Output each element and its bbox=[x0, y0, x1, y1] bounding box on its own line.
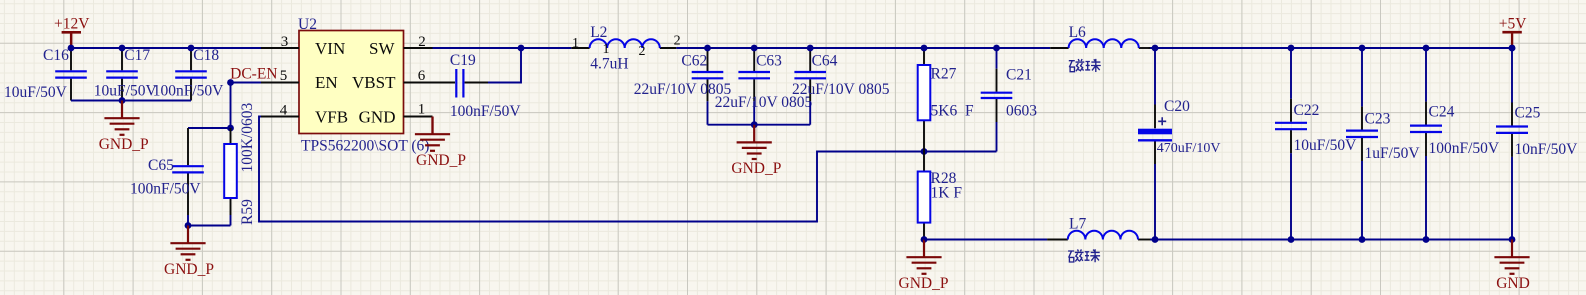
svg-text:C62: C62 bbox=[681, 52, 707, 69]
svg-text:3: 3 bbox=[281, 34, 289, 50]
wire C19 to SW rail bbox=[488, 48, 521, 83]
junction DC-EN bbox=[227, 79, 234, 86]
svg-text:GND_P: GND_P bbox=[731, 160, 781, 177]
resistor R28 bbox=[923, 152, 925, 172]
svg-text:C65: C65 bbox=[148, 157, 174, 174]
svg-text:U2: U2 bbox=[298, 16, 317, 33]
svg-text:2: 2 bbox=[639, 44, 646, 59]
svg-text:C21: C21 bbox=[1006, 66, 1032, 83]
capacitor C21 bbox=[996, 48, 998, 69]
svg-text:1: 1 bbox=[572, 36, 579, 51]
svg-text:100nF/50V: 100nF/50V bbox=[450, 103, 521, 120]
junction C63 top bbox=[751, 45, 758, 52]
svg-text:R59: R59 bbox=[239, 199, 256, 225]
wire pin1 to ground bbox=[431, 117, 433, 135]
pin 6 VBST bbox=[404, 82, 433, 84]
svg-text:2: 2 bbox=[674, 34, 681, 49]
svg-text:VFB: VFB bbox=[315, 108, 348, 127]
pin 1 GND bbox=[404, 116, 433, 118]
svg-text:22uF/10V 0805: 22uF/10V 0805 bbox=[792, 81, 890, 98]
junction C64 top bbox=[807, 45, 814, 52]
capacitor C23 bbox=[1361, 48, 1363, 107]
svg-text:L6: L6 bbox=[1069, 24, 1086, 41]
svg-text:C63: C63 bbox=[756, 52, 782, 69]
junction L7/C20 bottom bbox=[1152, 236, 1159, 243]
svg-text:SW: SW bbox=[369, 39, 395, 58]
capacitor C17 bbox=[121, 48, 123, 70]
junction +5V bbox=[1509, 45, 1516, 52]
wire +12V stem bbox=[70, 33, 72, 48]
resistor R27 bbox=[923, 48, 925, 65]
svg-text:1: 1 bbox=[418, 102, 426, 118]
svg-text:L7: L7 bbox=[1069, 215, 1086, 232]
ground GND_P R28 bbox=[906, 240, 941, 274]
svg-text:6: 6 bbox=[418, 68, 426, 84]
wire output caps bottom bbox=[708, 124, 811, 126]
wire C65/R59 bottom bbox=[188, 225, 231, 227]
resistor R59 bbox=[230, 128, 232, 144]
ground GND_P output caps bbox=[737, 125, 772, 159]
svg-text:L2: L2 bbox=[590, 24, 607, 41]
wire R28 gnd to L7 bbox=[924, 239, 1047, 241]
svg-text:1K F: 1K F bbox=[931, 185, 963, 202]
junction C19/SW bbox=[518, 45, 525, 52]
svg-text:C19: C19 bbox=[450, 52, 476, 69]
svg-text:GND_P: GND_P bbox=[99, 136, 149, 153]
capacitor C63 bbox=[753, 48, 755, 71]
svg-text:GND_P: GND_P bbox=[164, 261, 214, 278]
capacitor C19 bbox=[433, 82, 456, 84]
capacitor C18 bbox=[190, 48, 192, 70]
wire input caps bottom bbox=[71, 100, 191, 102]
svg-text:R27: R27 bbox=[931, 66, 957, 83]
wire L6 to +5V rail bbox=[1149, 47, 1513, 49]
capacitor C62 bbox=[707, 48, 709, 71]
pin 2 SW bbox=[404, 47, 433, 49]
svg-text:10uF/50V: 10uF/50V bbox=[94, 83, 158, 100]
svg-text:0603: 0603 bbox=[1006, 103, 1037, 120]
svg-text:C24: C24 bbox=[1429, 103, 1455, 120]
capacitor C24 bbox=[1425, 48, 1427, 102]
svg-text:5K6 F: 5K6 F bbox=[931, 103, 974, 120]
svg-text:10uF/50V: 10uF/50V bbox=[4, 84, 68, 101]
value 磁珠 L6 bbox=[1069, 59, 1101, 72]
capacitor C65 bbox=[187, 128, 189, 165]
pin 3 VIN bbox=[261, 47, 299, 49]
svg-text:GND: GND bbox=[359, 108, 396, 127]
svg-text:100nF/50V: 100nF/50V bbox=[130, 181, 201, 198]
pin 5 EN bbox=[261, 82, 299, 84]
wire L7 to GND corner bbox=[1150, 239, 1512, 241]
junction C62 top bbox=[704, 45, 711, 52]
junction C17 top bbox=[119, 45, 126, 52]
svg-text:EN: EN bbox=[315, 73, 338, 92]
ground GND_P C65/R59 bbox=[170, 226, 205, 260]
pin 4 VFB bbox=[261, 116, 299, 118]
junction C21 top bbox=[993, 45, 1000, 52]
svg-text:10uF/50V: 10uF/50V bbox=[1294, 137, 1358, 154]
capacitor C20 470uF bbox=[1154, 48, 1156, 105]
inductor L2 4.7uH bbox=[571, 47, 589, 49]
junction FB divider bbox=[921, 148, 928, 155]
svg-text:C22: C22 bbox=[1294, 102, 1320, 119]
capacitor C25 bbox=[1511, 48, 1513, 103]
wire R59/C65 top bbox=[188, 127, 231, 129]
svg-text:4.7uH: 4.7uH bbox=[590, 55, 628, 72]
wire DC-EN to pin5 bbox=[231, 82, 262, 84]
svg-text:4: 4 bbox=[280, 103, 288, 119]
power +12V bbox=[62, 31, 81, 34]
junction C65 bottom bbox=[185, 222, 192, 229]
svg-text:GND_P: GND_P bbox=[899, 275, 949, 292]
wire L2 to L6 bbox=[676, 47, 1050, 49]
junction C17 bottom bbox=[119, 97, 126, 104]
wire VFB feedback bbox=[259, 117, 997, 222]
svg-text:GND_P: GND_P bbox=[416, 152, 466, 169]
capacitor C64 bbox=[809, 48, 811, 71]
svg-text:100nF/50V: 100nF/50V bbox=[1429, 140, 1500, 157]
svg-text:470uF/10V: 470uF/10V bbox=[1157, 141, 1221, 156]
capacitor C16 bbox=[70, 48, 72, 70]
svg-text:5: 5 bbox=[280, 68, 288, 84]
junction L6/C20 top bbox=[1152, 45, 1159, 52]
svg-text:TPS562200\SOT (6): TPS562200\SOT (6) bbox=[301, 137, 429, 154]
wire +12V rail to U2 pin3 bbox=[71, 47, 261, 49]
svg-text:+5V: +5V bbox=[1499, 15, 1527, 32]
junction R28 bottom bbox=[921, 236, 928, 243]
op-amp U2 TPS562200 body bbox=[299, 31, 404, 134]
ground GND_P U2 bbox=[415, 117, 450, 151]
svg-text:VIN: VIN bbox=[315, 39, 345, 58]
power +5V bbox=[1502, 31, 1521, 34]
svg-text:C16: C16 bbox=[43, 47, 69, 64]
svg-text:DC-EN: DC-EN bbox=[230, 66, 277, 83]
svg-text:+12V: +12V bbox=[54, 16, 90, 33]
svg-text:C23: C23 bbox=[1365, 110, 1391, 127]
inductor L7 bead bbox=[1047, 239, 1068, 241]
value 磁珠 L7 bbox=[1068, 249, 1100, 262]
wire U2 SW to L2 bbox=[433, 47, 572, 49]
svg-text:VBST: VBST bbox=[352, 73, 396, 92]
svg-text:100nF/50V: 100nF/50V bbox=[153, 83, 224, 100]
junction R59 top bbox=[227, 125, 234, 132]
junction GND corner bbox=[1509, 236, 1516, 243]
svg-text:C18: C18 bbox=[193, 47, 219, 64]
svg-text:GND: GND bbox=[1496, 275, 1530, 292]
inductor L6 bead bbox=[1050, 47, 1068, 49]
svg-text:10nF/50V: 10nF/50V bbox=[1515, 141, 1579, 158]
junction C63 bottom bbox=[751, 121, 758, 128]
junction R27 top bbox=[921, 45, 928, 52]
svg-text:C25: C25 bbox=[1515, 104, 1541, 121]
ground GND_P input caps bbox=[104, 101, 139, 135]
svg-text:C17: C17 bbox=[124, 47, 150, 64]
capacitor C22 bbox=[1290, 48, 1292, 99]
ground GND output bbox=[1494, 240, 1529, 274]
svg-text:C20: C20 bbox=[1164, 98, 1190, 115]
junction +12V/C16 bbox=[68, 45, 75, 52]
svg-text:C64: C64 bbox=[812, 52, 838, 69]
junction C18 top bbox=[188, 45, 195, 52]
svg-text:2: 2 bbox=[418, 34, 426, 50]
svg-text:1uF/50V: 1uF/50V bbox=[1365, 145, 1421, 162]
wire DC-EN down to R59 bbox=[230, 83, 232, 129]
svg-text:100K/0603: 100K/0603 bbox=[239, 103, 256, 173]
